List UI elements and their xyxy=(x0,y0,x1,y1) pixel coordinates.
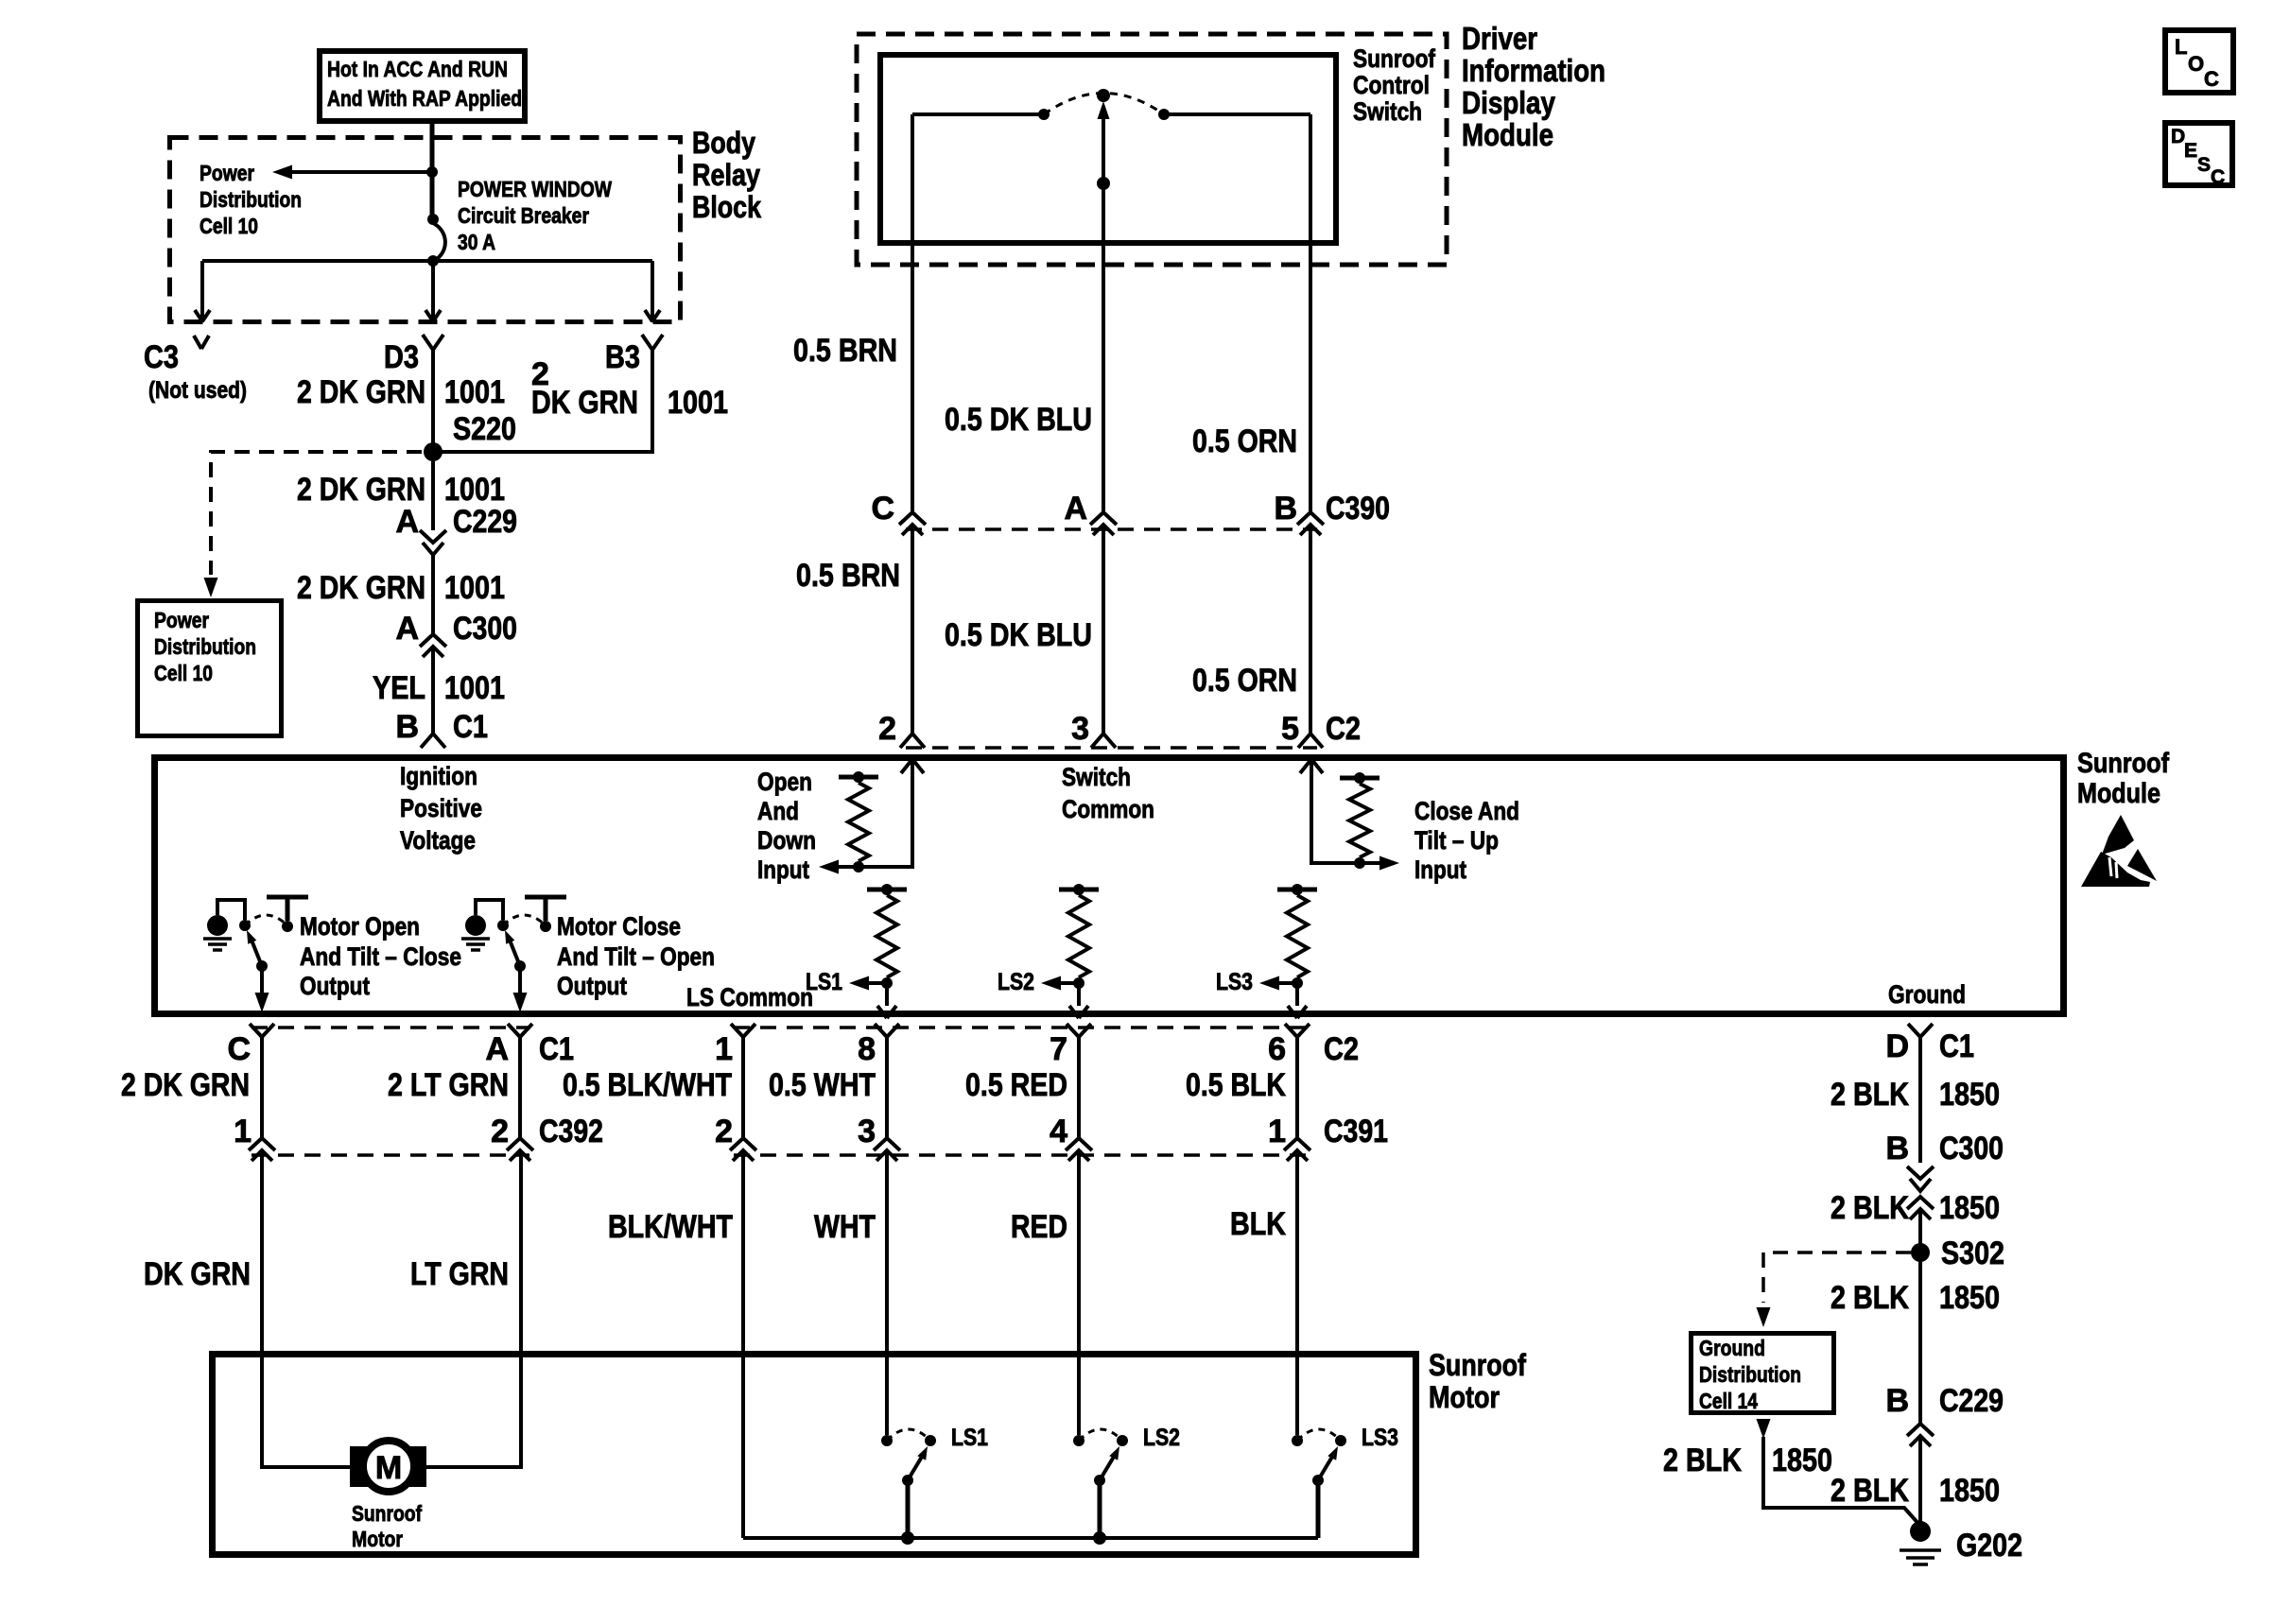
svg-text:7: 7 xyxy=(1050,1031,1067,1067)
svg-text:Body: Body xyxy=(692,126,755,160)
wire drop to D3 xyxy=(431,261,435,322)
svg-text:DK GRN: DK GRN xyxy=(531,385,638,421)
svg-text:Voltage: Voltage xyxy=(400,826,476,855)
wire pin5 internal with up arrow xyxy=(1300,759,1311,773)
svg-text:0.5 ORN: 0.5 ORN xyxy=(1192,423,1297,459)
svg-text:1850: 1850 xyxy=(1939,1280,2000,1316)
svg-text:And: And xyxy=(757,797,799,825)
arrow at D3 exit xyxy=(425,310,433,321)
svg-text:1001: 1001 xyxy=(668,385,728,421)
svg-text:0.5 DK BLU: 0.5 DK BLU xyxy=(945,617,1092,653)
svg-text:(Not used): (Not used) xyxy=(148,377,247,404)
svg-text:0.5 BLK/WHT: 0.5 BLK/WHT xyxy=(563,1067,732,1103)
wire switch left contact xyxy=(912,112,1039,116)
svg-text:And With RAP Applied: And With RAP Applied xyxy=(327,86,522,111)
svg-text:Motor: Motor xyxy=(352,1527,403,1551)
wire left contact down (0.5 BRN) xyxy=(911,114,914,512)
svg-text:C390: C390 xyxy=(1326,491,1390,527)
pin 6 of C2 xyxy=(1285,1024,1310,1037)
svg-text:0.5 DK BLU: 0.5 DK BLU xyxy=(945,402,1092,438)
connector C391 pin 1 xyxy=(1284,1138,1310,1150)
svg-text:YEL: YEL xyxy=(373,670,425,706)
svg-text:C392: C392 xyxy=(539,1114,603,1149)
svg-text:Ground: Ground xyxy=(1699,1336,1765,1360)
wire DK GRN to sunroof motor xyxy=(262,1150,350,1467)
svg-text:Open: Open xyxy=(757,768,812,796)
svg-text:Switch: Switch xyxy=(1353,97,1422,126)
svg-text:3: 3 xyxy=(1071,711,1089,747)
resistor R4 LS2 sense xyxy=(1059,888,1099,892)
pin 2 of C2 xyxy=(900,734,925,748)
circuit breaker CB1 POWER WINDOW 30 A xyxy=(427,214,439,225)
svg-text:S: S xyxy=(2197,154,2211,176)
svg-text:B3: B3 xyxy=(605,339,640,375)
svg-text:C: C xyxy=(227,1031,251,1067)
Sunroof Control Switch box xyxy=(880,55,1336,243)
svg-text:LS3: LS3 xyxy=(1216,969,1253,995)
pin 7 of C2 xyxy=(1067,1024,1091,1037)
LS common bus wire xyxy=(743,1536,1318,1540)
svg-text:Power: Power xyxy=(154,608,209,632)
Power Distribution Cell 10 box (lower left) xyxy=(138,601,282,736)
dashed wire S302 to Ground Distribution xyxy=(1763,1253,1911,1303)
svg-text:O: O xyxy=(2188,52,2204,76)
wire WHT to LS1 xyxy=(885,1150,889,1435)
svg-text:3: 3 xyxy=(858,1114,876,1149)
svg-text:2 BLK: 2 BLK xyxy=(1831,1473,1909,1509)
svg-text:Close And: Close And xyxy=(1414,797,1519,825)
svg-text:2: 2 xyxy=(491,1114,509,1149)
svg-text:1001: 1001 xyxy=(444,670,505,706)
splice S220 xyxy=(424,442,442,461)
Body Relay Block dashed box xyxy=(170,138,681,322)
svg-text:Control: Control xyxy=(1353,71,1430,99)
wire D pin to C300 xyxy=(1918,1037,1922,1163)
wire D3 to S220 (2 DK GRN 1001) xyxy=(431,350,435,444)
node LS1 bus junction xyxy=(901,1531,914,1545)
svg-text:Input: Input xyxy=(757,855,809,884)
svg-text:Tilt – Up: Tilt – Up xyxy=(1414,826,1499,855)
wire C390 A down (0.5 DK BLU) xyxy=(1102,525,1105,733)
connector C391 dashed face xyxy=(734,1153,1307,1157)
svg-text:Power: Power xyxy=(200,161,254,185)
svg-text:Module: Module xyxy=(2077,778,2160,809)
svg-text:Display: Display xyxy=(1462,85,1556,120)
svg-text:LS Common: LS Common xyxy=(686,983,813,1011)
DESC reference box xyxy=(2165,123,2232,185)
svg-text:Cell 10: Cell 10 xyxy=(154,661,213,685)
connector C392 dashed face xyxy=(252,1153,529,1157)
svg-text:C300: C300 xyxy=(1939,1131,2004,1166)
svg-text:1001: 1001 xyxy=(444,570,505,606)
svg-text:B: B xyxy=(395,709,419,745)
svg-text:C391: C391 xyxy=(1324,1114,1388,1149)
arrow at B3 exit xyxy=(645,310,652,321)
svg-text:Driver: Driver xyxy=(1462,21,1537,56)
svg-text:LT GRN: LT GRN xyxy=(410,1256,509,1292)
Sunroof Module box xyxy=(155,758,2064,1014)
svg-text:C1: C1 xyxy=(453,709,488,745)
svg-text:LS2: LS2 xyxy=(998,969,1034,995)
svg-text:2 DK GRN: 2 DK GRN xyxy=(297,570,425,606)
svg-text:A: A xyxy=(395,611,419,647)
svg-text:Sunroof: Sunroof xyxy=(1353,44,1436,73)
svg-text:2 DK GRN: 2 DK GRN xyxy=(121,1067,250,1103)
node switch right contact xyxy=(1158,109,1170,120)
svg-text:L: L xyxy=(2175,35,2187,59)
svg-text:Ignition: Ignition xyxy=(400,762,477,790)
wire pin2 internal with up arrow xyxy=(901,759,912,773)
svg-text:2 DK GRN: 2 DK GRN xyxy=(297,472,425,508)
wire BLK to LS3 xyxy=(1295,1150,1299,1435)
pin C of C1 xyxy=(250,1024,274,1037)
node on switch common wire xyxy=(1097,177,1110,190)
svg-text:Positive: Positive xyxy=(400,794,482,822)
arrow Close And Tilt-Up Input xyxy=(1379,856,1399,871)
svg-text:POWER WINDOW: POWER WINDOW xyxy=(458,177,612,201)
wire right contact down (0.5 ORN) xyxy=(1309,114,1312,512)
wire from Hot feed down to circuit breaker xyxy=(430,121,435,221)
limit switch LS1 xyxy=(881,1435,893,1446)
LOC reference box xyxy=(2165,30,2233,93)
svg-text:D: D xyxy=(1885,1028,1909,1064)
svg-text:C: C xyxy=(2211,166,2225,188)
svg-text:2 BLK: 2 BLK xyxy=(1663,1443,1742,1478)
wire C300 to C229 xyxy=(1918,1209,1922,1424)
svg-text:Sunroof: Sunroof xyxy=(352,1501,422,1526)
svg-text:Common: Common xyxy=(1062,795,1154,823)
pin A of C1 xyxy=(508,1024,532,1037)
wire 1 pin to C391 xyxy=(741,1037,745,1138)
node feed junction xyxy=(426,166,438,178)
svg-text:1001: 1001 xyxy=(444,472,505,508)
svg-text:M: M xyxy=(375,1450,402,1486)
wire S220 to C229 xyxy=(431,461,435,530)
svg-text:Hot In ACC And RUN: Hot In ACC And RUN xyxy=(327,57,508,81)
svg-text:D3: D3 xyxy=(384,339,419,375)
wire Ground Distribution to G202 xyxy=(1763,1437,1920,1526)
wire drop to B3 xyxy=(651,261,654,322)
wire C229 to G202 xyxy=(1918,1436,1922,1524)
svg-text:Block: Block xyxy=(692,190,761,224)
svg-text:2: 2 xyxy=(878,711,896,747)
svg-text:LS3: LS3 xyxy=(1362,1425,1398,1451)
pin D of C1 (ground) xyxy=(1908,1024,1933,1037)
wire to Power Distribution arrow xyxy=(287,170,432,174)
node LS2 bus junction xyxy=(1093,1531,1106,1545)
svg-text:C1: C1 xyxy=(1939,1028,1974,1064)
ground G202 xyxy=(1910,1521,1931,1542)
dashed wire S220 to Power Distribution Cell 10 xyxy=(211,452,422,575)
svg-text:LS1: LS1 xyxy=(951,1425,988,1451)
connector C390 pin B xyxy=(1297,512,1324,525)
pin B of C1 (Sunroof Module) xyxy=(421,734,445,748)
svg-text:Output: Output xyxy=(300,972,370,1000)
Ground Distribution Cell 14 box xyxy=(1692,1334,1834,1413)
connector C390 pin A xyxy=(1090,512,1117,525)
svg-text:C: C xyxy=(871,491,894,527)
svg-text:DK GRN: DK GRN xyxy=(144,1256,251,1292)
connector C392 pin 2 xyxy=(507,1138,533,1150)
svg-text:1850: 1850 xyxy=(1939,1473,2000,1509)
svg-text:C1: C1 xyxy=(539,1031,574,1067)
svg-text:E: E xyxy=(2184,140,2197,162)
svg-text:2 BLK: 2 BLK xyxy=(1831,1190,1909,1226)
relay/switch Motor Close And Tilt-Open Output (with ground) xyxy=(476,900,503,920)
svg-text:1: 1 xyxy=(234,1114,252,1149)
svg-text:B: B xyxy=(1885,1131,1909,1166)
svg-text:Sunroof: Sunroof xyxy=(1429,1348,1526,1382)
svg-text:4: 4 xyxy=(1050,1114,1067,1149)
svg-text:A: A xyxy=(485,1031,509,1067)
wire BLK/WHT to LS common bus xyxy=(741,1150,745,1538)
wire switch right contact xyxy=(1169,112,1310,116)
svg-text:1: 1 xyxy=(1268,1114,1286,1149)
pin 8 of C2 xyxy=(875,1024,899,1037)
pin 5 of C2 xyxy=(1298,734,1323,748)
svg-text:G202: G202 xyxy=(1956,1528,2022,1564)
resistor R2 close/tilt-up input xyxy=(1340,776,1379,781)
svg-text:Distribution: Distribution xyxy=(1699,1362,1801,1387)
connector C392 pin 1 xyxy=(249,1138,275,1150)
wire C390 B down (0.5 ORN) xyxy=(1309,525,1312,733)
svg-text:And Tilt – Open: And Tilt – Open xyxy=(557,942,715,971)
connector C1 dashed face (left) xyxy=(252,1026,529,1029)
svg-text:2 LT GRN: 2 LT GRN xyxy=(388,1067,509,1103)
connector C390 dashed face xyxy=(906,527,1317,531)
arrow Open And Down Input xyxy=(819,860,839,874)
svg-text:1850: 1850 xyxy=(1772,1443,1832,1478)
svg-text:A: A xyxy=(395,504,419,540)
pin 1 of C2 xyxy=(731,1024,755,1037)
svg-text:C2: C2 xyxy=(1324,1031,1359,1067)
Sunroof Motor box xyxy=(213,1355,1416,1555)
svg-text:1850: 1850 xyxy=(1939,1190,2000,1226)
wire drop to C3 xyxy=(200,261,204,322)
svg-text:0.5 RED: 0.5 RED xyxy=(965,1067,1067,1103)
svg-text:2: 2 xyxy=(715,1114,733,1149)
connector C2 dashed face (left) xyxy=(734,1026,1307,1029)
arrow at C3 exit xyxy=(195,310,202,321)
pin C3 (not used) xyxy=(194,336,201,349)
svg-text:Distribution: Distribution xyxy=(154,634,256,659)
svg-text:Input: Input xyxy=(1414,855,1466,884)
resistor R1 open/down input xyxy=(839,775,878,780)
svg-text:Cell 14: Cell 14 xyxy=(1699,1389,1758,1413)
svg-text:S220: S220 xyxy=(453,411,516,447)
wire 8 pin to C391 xyxy=(885,1037,889,1138)
wire RED to LS2 xyxy=(1077,1150,1081,1435)
svg-text:BLK/WHT: BLK/WHT xyxy=(608,1209,733,1245)
svg-text:1850: 1850 xyxy=(1939,1077,2000,1113)
svg-text:C300: C300 xyxy=(453,611,517,647)
svg-text:Information: Information xyxy=(1462,53,1605,88)
svg-text:Switch: Switch xyxy=(1062,763,1131,791)
svg-text:Module: Module xyxy=(1462,117,1553,152)
svg-text:0.5 ORN: 0.5 ORN xyxy=(1192,663,1297,699)
connector C390 pin C xyxy=(899,512,926,525)
wire C229 to C300 xyxy=(431,555,435,634)
svg-text:30 A: 30 A xyxy=(458,230,495,254)
svg-text:Motor: Motor xyxy=(1429,1380,1500,1414)
arrow to Power Distribution Cell 10 xyxy=(272,165,292,180)
svg-text:C229: C229 xyxy=(453,504,517,540)
svg-text:B: B xyxy=(1274,491,1297,527)
svg-text:5: 5 xyxy=(1281,711,1299,747)
svg-text:Sunroof: Sunroof xyxy=(2077,748,2170,779)
svg-text:Ground: Ground xyxy=(1888,980,1966,1009)
svg-text:WHT: WHT xyxy=(814,1209,876,1245)
connector C229 pin A xyxy=(420,530,446,543)
svg-text:6: 6 xyxy=(1268,1031,1286,1067)
svg-text:Down: Down xyxy=(757,826,816,855)
connector C2 dashed face at module xyxy=(906,746,1317,750)
limit switch LS3 xyxy=(1292,1435,1303,1446)
svg-text:Output: Output xyxy=(557,972,627,1000)
wire C390 C down (0.5 BRN) xyxy=(911,525,914,733)
splice S302 xyxy=(1911,1243,1930,1262)
svg-text:A: A xyxy=(1064,491,1087,527)
svg-text:2 BLK: 2 BLK xyxy=(1831,1077,1909,1113)
svg-text:C3: C3 xyxy=(144,339,179,375)
wire C300 to C1 (YEL 1001) xyxy=(431,647,435,734)
ESD sensitive symbol xyxy=(2102,815,2134,855)
resistor R5 LS3 sense xyxy=(1277,888,1317,892)
svg-text:C229: C229 xyxy=(1939,1383,2004,1419)
wire A pin to C392 xyxy=(518,1037,522,1138)
connector C391 pin 2 xyxy=(730,1138,756,1150)
svg-text:2 DK GRN: 2 DK GRN xyxy=(297,374,425,410)
wire 6 pin to C391 xyxy=(1295,1037,1299,1138)
pin 3 of C2 xyxy=(1091,734,1116,748)
connector C391 pin 4 xyxy=(1066,1138,1092,1150)
node switch left contact xyxy=(1038,109,1050,120)
svg-text:BLK: BLK xyxy=(1230,1206,1286,1242)
svg-text:1001: 1001 xyxy=(444,374,505,410)
motor M1 sunroof motor xyxy=(350,1446,426,1487)
wire 7 pin to C391 xyxy=(1077,1037,1081,1138)
connector C391 pin 3 xyxy=(874,1138,900,1150)
svg-text:And Tilt – Close: And Tilt – Close xyxy=(300,942,461,971)
svg-text:0.5 BRN: 0.5 BRN xyxy=(793,333,897,369)
relay/switch Motor Open And Tilt-Close Output (with ground) xyxy=(217,900,245,920)
connector C300 pin A xyxy=(420,634,446,647)
wire switch common down xyxy=(1102,106,1105,512)
svg-text:B: B xyxy=(1885,1383,1909,1419)
arrow into Power Distribution box xyxy=(204,578,218,597)
svg-text:C2: C2 xyxy=(1326,711,1361,747)
pin D3 xyxy=(423,335,443,350)
svg-text:RED: RED xyxy=(1011,1209,1067,1245)
svg-text:LS2: LS2 xyxy=(1143,1425,1180,1451)
svg-text:2 BLK: 2 BLK xyxy=(1831,1280,1909,1316)
switch common arrow xyxy=(1098,101,1110,119)
node breaker output junction xyxy=(427,255,439,267)
arrow out of Ground Distribution box xyxy=(1757,1419,1771,1439)
pin B3 xyxy=(642,335,663,350)
svg-text:Cell 10: Cell 10 xyxy=(200,214,258,238)
svg-text:Distribution: Distribution xyxy=(200,187,302,212)
wire C pin to C392 xyxy=(260,1037,264,1138)
svg-text:D: D xyxy=(2171,126,2185,147)
svg-text:8: 8 xyxy=(858,1031,876,1067)
resistor R3 LS1 sense xyxy=(867,888,907,892)
svg-text:1: 1 xyxy=(715,1031,733,1067)
svg-text:Relay: Relay xyxy=(692,158,760,192)
Driver Information Display Module dashed box xyxy=(857,34,1447,265)
wire LT GRN to sunroof motor xyxy=(426,1150,521,1467)
svg-text:0.5 WHT: 0.5 WHT xyxy=(769,1067,876,1103)
svg-text:0.5 BLK: 0.5 BLK xyxy=(1186,1067,1286,1103)
power source label box (Hot In ACC And RUN / And With RAP Applied) xyxy=(320,51,525,121)
bus wire below breaker xyxy=(202,259,652,263)
svg-text:Motor Close: Motor Close xyxy=(557,912,681,941)
svg-text:0.5 BRN: 0.5 BRN xyxy=(796,558,900,594)
arrow into Ground Distribution box xyxy=(1757,1307,1771,1327)
wire B3 to S220 xyxy=(433,350,652,452)
switch wiper dashed arc xyxy=(1044,94,1164,115)
svg-text:C: C xyxy=(2204,67,2219,91)
svg-text:S302: S302 xyxy=(1941,1235,2004,1271)
svg-text:Motor Open: Motor Open xyxy=(300,912,420,941)
limit switch LS2 xyxy=(1073,1435,1084,1446)
svg-text:Circuit Breaker: Circuit Breaker xyxy=(458,203,589,228)
node switch common xyxy=(1097,89,1110,102)
